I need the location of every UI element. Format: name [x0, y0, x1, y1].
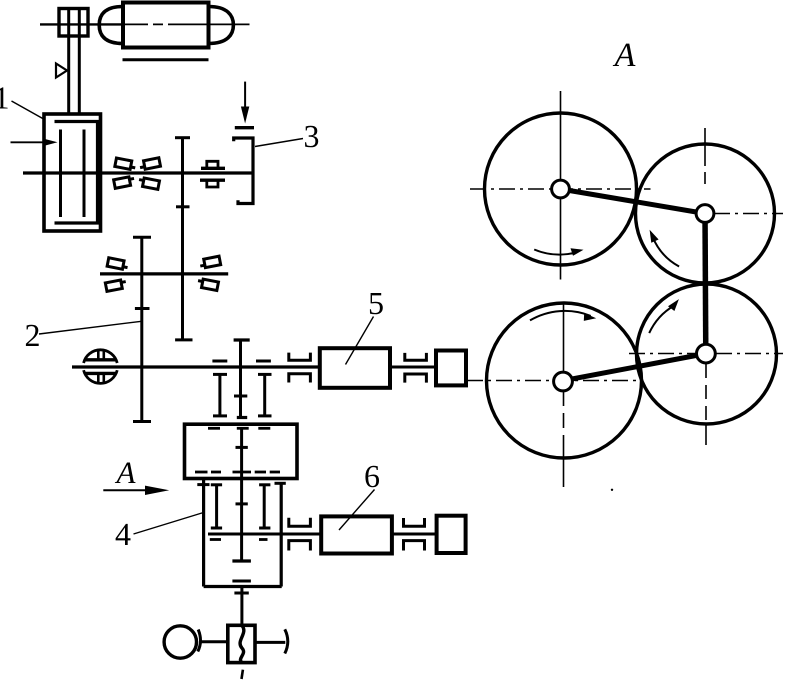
leader line to 4: [134, 513, 204, 535]
arc next to handwheel: [198, 630, 201, 652]
leader line to 3: [255, 139, 303, 147]
end fork arc: [285, 629, 288, 653]
output shaft collar below housing: [234, 592, 248, 595]
input arrow into box 1: [11, 138, 58, 146]
roller 4 vertical centerline: [705, 364, 707, 445]
wavy line inside: [240, 625, 244, 662]
shaft to box 5: [310, 366, 319, 369]
link roller4 to roller3: [564, 354, 707, 381]
bevel gear row2 bottom-right: [197, 278, 219, 290]
roller 1 vertical centerline: [560, 91, 562, 280]
handwheel circle: [164, 626, 196, 658]
gear hub on shaft I lower: [200, 180, 225, 187]
variator box 1 outer: [44, 114, 101, 231]
gearbox lower housing right wall: [275, 483, 286, 586]
roller 2 vertical centerline: [704, 128, 706, 184]
link roller1 to roller2: [561, 189, 706, 214]
vertical belt shaft left line: [67, 10, 70, 114]
roller 2 horizontal centerline: [714, 213, 783, 215]
belt pulley on shaft III circle: [84, 350, 118, 363]
roller 4 horizontal centerline: [629, 353, 783, 355]
bevel row 2 axis line: [100, 272, 228, 275]
shaft VI gear dashes: [210, 538, 268, 541]
link roller2 to roller4: [702, 214, 708, 354]
bevel gear row2 top-right: [199, 256, 221, 268]
housing top gear dashes: [208, 427, 270, 430]
central vertical gear shaft in gearbox: [232, 428, 251, 561]
variator inner plate left: [59, 130, 62, 218]
shaft III horizontal: [72, 365, 320, 368]
rotation arrow roller4: [649, 299, 679, 333]
bevel gear row2 bottom-left: [105, 279, 127, 291]
label 2: [26, 325, 39, 346]
variator inner plate right: [83, 130, 86, 218]
pulley top flange: [84, 358, 116, 361]
motor axis centerline: [40, 23, 122, 25]
coupling before box 5: [289, 353, 311, 383]
end block on shaft III: [436, 351, 466, 386]
leader line to 5: [346, 317, 374, 365]
bevel gear pair on shaft I top-left: [115, 158, 137, 170]
label 6: [365, 466, 379, 488]
handwheel shaft: [202, 640, 228, 643]
housing bottom gear dashes: [195, 471, 280, 474]
shaft I horizontal: [23, 171, 253, 174]
output shaft VI horizontal: [208, 533, 321, 536]
leader line to 1: [12, 101, 45, 120]
bevel gear pair on shaft I bottom-left: [114, 176, 136, 188]
electric motor M1: [99, 3, 233, 48]
gear cluster right wheel: [256, 361, 272, 416]
gear hub on shaft I upper: [201, 161, 225, 168]
gear wheel v4: [259, 485, 270, 528]
variator box 1 inner frame: [55, 122, 98, 224]
gearbox 4 upper housing: [185, 424, 298, 478]
gearbox 5: [320, 348, 390, 388]
shaft after box 6: [392, 533, 437, 536]
leader line to 2: [39, 321, 142, 334]
label 3: [305, 126, 318, 148]
rotation arrow roller3: [530, 311, 596, 321]
view A title: [613, 44, 636, 66]
rotation arrow roller1: [534, 248, 583, 256]
label 1: [0, 87, 8, 108]
motor base line: [123, 58, 209, 61]
view arrow A label: [115, 463, 136, 484]
bevel gear pair on shaft I top-right: [139, 158, 161, 170]
clutch 3 press arrow: [241, 82, 249, 124]
clutch 3 bracket: [234, 138, 253, 204]
end block on shaft VI: [437, 516, 466, 553]
tail below flexible box: [242, 670, 243, 679]
flexible link box: [228, 625, 255, 662]
shaft after box 5: [390, 366, 436, 369]
coupling after box 6: [404, 518, 425, 551]
label 4: [116, 524, 131, 545]
hinge pin roller2: [696, 205, 714, 223]
tall gear wheel line: [175, 138, 193, 340]
label 5: [370, 293, 383, 314]
pulley/coupling on motor shaft: [59, 9, 88, 37]
rotation arrow roller2: [650, 230, 680, 267]
bottom gear dash above housing floor: [232, 580, 251, 583]
shaft II vertical: [133, 237, 151, 421]
roller 4 bottom-right circle: [637, 284, 777, 424]
shaft right of flexible box: [255, 641, 285, 644]
gearbox lower housing left wall: [197, 479, 209, 587]
pulley hub ticks: [98, 351, 104, 382]
roller 3 horizontal centerline: [467, 380, 644, 382]
roller 2 top-right circle: [636, 144, 775, 283]
gearbox lower housing bottom: [204, 585, 282, 588]
bevel gear pair on shaft I bottom-right: [138, 177, 160, 189]
view arrow A: [103, 486, 169, 495]
roller 1 horizontal centerline: [470, 188, 651, 190]
vertical output shaft down: [240, 587, 243, 626]
gear cluster left wheel: [212, 361, 227, 416]
vertical belt shaft right line: [78, 10, 81, 114]
roller 3 vertical centerline: [563, 303, 565, 487]
clutch 3 thrust bar: [235, 126, 254, 129]
gearbox 6: [321, 516, 392, 553]
hinge pin roller4: [697, 344, 716, 363]
pulley bottom flange: [84, 372, 116, 375]
leader line to 6: [339, 490, 375, 531]
roller 1 top-left circle: [485, 113, 637, 265]
coupling before box 6: [289, 518, 311, 551]
coupling after box 5: [405, 353, 427, 383]
bevel gear row2 top-left: [107, 258, 129, 270]
roller 3 bottom-left circle: [487, 303, 642, 458]
gear cluster central wheel: [234, 340, 250, 418]
gear wheel v2: [211, 485, 222, 528]
stray dot: [611, 489, 613, 491]
belt direction triangle: [56, 64, 67, 78]
hinge pin roller3: [554, 372, 573, 391]
hinge pin roller1: [552, 180, 570, 198]
